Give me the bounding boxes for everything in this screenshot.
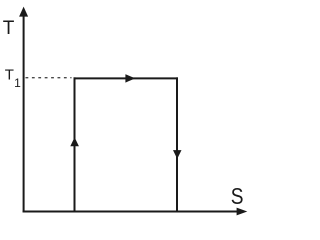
svg-text:T: T (5, 66, 14, 83)
down arrow on right edge (173, 150, 182, 159)
S axis (horizontal) (23, 211, 240, 213)
cycle top edge (isotherm at T1) (74, 77, 179, 79)
up arrow on left edge (70, 137, 79, 146)
S axis arrowhead (237, 208, 248, 216)
T axis arrowhead (19, 7, 28, 17)
cycle left edge (up leg) (74, 77, 76, 212)
right arrow on top edge (125, 74, 135, 82)
svg-text:1: 1 (14, 76, 21, 90)
svg-text:T: T (3, 18, 15, 39)
T axis (vertical) (23, 15, 25, 213)
dotted line from T1 to cycle (26, 77, 72, 79)
svg-text:S: S (231, 185, 244, 210)
cycle right edge (down leg) (176, 77, 178, 212)
